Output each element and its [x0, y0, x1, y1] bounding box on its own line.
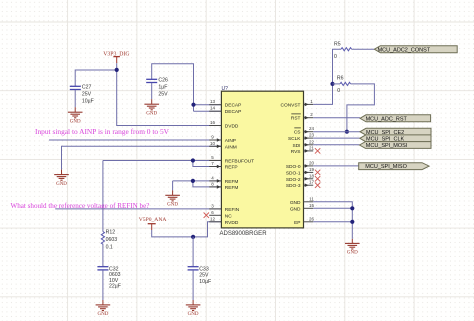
svg-text:R5: R5: [334, 41, 341, 47]
svg-text:REFM: REFM: [225, 179, 239, 185]
svg-text:19: 19: [309, 167, 315, 172]
svg-text:SDI: SDI: [293, 143, 301, 149]
port MCU_SPI_MOSI: [360, 142, 432, 150]
U? pin 8 REFM: [209, 181, 238, 191]
svg-text:C26: C26: [158, 78, 168, 84]
junction REFM node: [191, 179, 195, 183]
svg-text:REFBUFOUT: REFBUFOUT: [225, 159, 254, 165]
U? pin 6 NC: [204, 210, 233, 220]
capacitor C26: [146, 78, 168, 98]
svg-text:R12: R12: [106, 230, 116, 236]
ground GND (C33): [186, 305, 201, 317]
wire SCLK to port: [313, 137, 360, 139]
U? pin 17 SDO-3: [286, 180, 320, 190]
svg-text:GND: GND: [146, 111, 157, 116]
U? pin 3 REFIN: [209, 203, 240, 213]
svg-text:ADS8900BRGER: ADS8900BRGER: [220, 231, 268, 237]
U? pin 16 DVDD: [209, 120, 239, 130]
svg-text:10: 10: [210, 141, 216, 146]
svg-text:R6: R6: [337, 76, 344, 82]
svg-text:0: 0: [337, 88, 340, 94]
svg-text:24: 24: [309, 126, 315, 131]
op-amp U? ADS8900BRGER body: [220, 86, 304, 237]
svg-text:DECAP: DECAP: [225, 109, 242, 115]
U? pin 7 REFP: [209, 161, 237, 171]
resistor R5: [334, 41, 352, 60]
U? pin 23 SCLK: [288, 133, 315, 143]
U? pin 21 RVS: [291, 145, 321, 155]
wire V3P3_DIG stem to junction: [116, 63, 118, 70]
U? pin 18 SDO-2: [286, 173, 320, 183]
svg-text:11: 11: [309, 196, 314, 201]
svg-text:GND: GND: [290, 206, 301, 212]
svg-text:C27: C27: [82, 84, 92, 90]
wire SDO-0 to port: [313, 165, 359, 167]
svg-text:REFP: REFP: [225, 165, 238, 171]
wire AINP: [49, 139, 221, 141]
capacitor C27: [70, 84, 94, 104]
svg-text:RVS: RVS: [291, 149, 301, 155]
svg-text:0: 0: [334, 54, 337, 60]
U? pin 11 GND: [290, 196, 315, 206]
wire C26 top to DECAP pins: [152, 64, 194, 111]
svg-text:25V: 25V: [158, 91, 168, 97]
junction EP node: [350, 220, 354, 224]
resistor R6: [333, 76, 351, 94]
power port V5P0_ANA: [139, 217, 167, 230]
ground GND (C27): [68, 112, 83, 124]
wire REFM: [173, 180, 222, 182]
svg-text:22: 22: [309, 139, 315, 144]
wire REFIN: [55, 208, 221, 210]
svg-text:GND: GND: [347, 251, 358, 256]
wire DECAP pin13: [194, 104, 222, 106]
wire C27 to ground: [74, 90, 76, 107]
svg-text:V5P0_ANA: V5P0_ANA: [139, 217, 167, 223]
port MCU_SPI_CE2: [360, 128, 431, 136]
wire junction to C33: [192, 237, 194, 266]
wire REFBUFOUT: [103, 160, 221, 162]
resistor R12: [101, 230, 117, 251]
svg-text:21: 21: [309, 145, 315, 150]
wire C32 to ground: [102, 270, 104, 300]
junction DECAP node: [191, 103, 195, 107]
wire RST to port: [313, 117, 360, 119]
svg-text:SDO-2: SDO-2: [286, 177, 301, 183]
svg-text:MCU_ADC2_CONST: MCU_ADC2_CONST: [378, 47, 431, 53]
junction REFBUFOUT node: [191, 158, 195, 162]
wire EP: [313, 221, 352, 223]
capacitor C32: [97, 266, 121, 289]
junction C33 node: [191, 235, 195, 239]
svg-text:AINM: AINM: [225, 144, 237, 150]
U? pin 22 SDI: [293, 139, 315, 149]
svg-text:SDO-0: SDO-0: [286, 164, 301, 170]
U? pin 24 CS: [294, 126, 315, 136]
wire C33 to ground: [192, 270, 194, 300]
wire REFM pin8 branch: [193, 181, 222, 187]
svg-text:16: 16: [210, 120, 216, 125]
wire V3P3 down to DVDD pin 16: [117, 70, 222, 126]
svg-text:MCU_SPI_MISO: MCU_SPI_MISO: [365, 164, 407, 170]
U? pin 10 AINM: [209, 141, 237, 151]
wire CS to port: [313, 131, 360, 133]
svg-text:14: 14: [210, 106, 216, 111]
svg-text:DVDD: DVDD: [225, 124, 239, 130]
svg-text:17: 17: [309, 180, 315, 185]
U? pin 2 RST: [291, 112, 313, 122]
svg-text:10µF: 10µF: [199, 279, 211, 285]
wire C26 to ground: [151, 83, 153, 99]
svg-text:RST: RST: [291, 116, 301, 122]
svg-text:SDO-3: SDO-3: [286, 183, 301, 189]
U? pin 14 DECAP: [209, 106, 241, 116]
svg-text:23: 23: [309, 133, 315, 138]
U? pin 15 GND: [290, 203, 315, 213]
svg-text:GND: GND: [188, 312, 199, 317]
wire REFP branch: [193, 161, 222, 167]
U? pin 5 REFBUFOUT: [209, 155, 254, 165]
wire SDI to port: [313, 144, 359, 146]
svg-text:GND: GND: [167, 203, 178, 208]
port MCU_ADC_RST: [360, 115, 431, 123]
svg-text:DECAP: DECAP: [225, 103, 242, 109]
wire AINM: [62, 146, 222, 169]
svg-text:13: 13: [210, 99, 216, 104]
svg-text:MCU_ADC_RST: MCU_ADC_RST: [366, 116, 408, 122]
svg-text:22µF: 22µF: [109, 284, 121, 290]
svg-text:20: 20: [309, 160, 315, 165]
wire GND pins to ground: [313, 202, 352, 239]
svg-text:REFIN: REFIN: [225, 207, 240, 213]
svg-text:12: 12: [210, 216, 216, 221]
ground GND (C32): [96, 305, 111, 317]
ground GND (C26): [144, 104, 159, 116]
svg-text:SDO-1: SDO-1: [286, 170, 301, 176]
svg-text:GND: GND: [290, 200, 301, 206]
U? pin 26 EP: [294, 216, 314, 226]
svg-text:GND: GND: [97, 312, 108, 317]
wire V3P3 horizontal to C27: [75, 70, 117, 86]
svg-text:RVDD: RVDD: [225, 220, 239, 226]
svg-text:EP: EP: [294, 220, 300, 226]
svg-text:CS: CS: [294, 130, 301, 136]
svg-text:10µF: 10µF: [82, 98, 94, 104]
svg-text:1µF: 1µF: [158, 84, 167, 90]
port MCU_SPI_CLK: [360, 135, 431, 143]
port MCU_SPI_MISO: [359, 163, 429, 170]
U? pin 13 DECAP: [209, 99, 241, 109]
U? pin 1 CONVST: [281, 99, 314, 109]
svg-text:Input singal to AINP is in ran: Input singal to AINP is in range from 0 …: [35, 127, 170, 136]
svg-text:15: 15: [309, 203, 315, 208]
ground GND (REFM): [165, 195, 180, 207]
ground GND (EP): [345, 239, 360, 256]
svg-text:SCLK: SCLK: [288, 136, 301, 142]
wire R12 to C32: [102, 244, 104, 266]
svg-text:AINP: AINP: [225, 138, 236, 144]
wire V5P0_ANA to RVDD: [152, 222, 222, 237]
svg-text:NC: NC: [225, 213, 232, 219]
junction GND node: [350, 206, 354, 210]
svg-text:REFM: REFM: [225, 185, 239, 191]
junction CS node: [345, 130, 349, 134]
svg-text:0603: 0603: [106, 237, 118, 243]
svg-text:U?: U?: [222, 86, 229, 92]
wire R5 to port: [352, 48, 375, 50]
svg-text:CONVST: CONVST: [281, 102, 301, 108]
svg-text:25V: 25V: [199, 273, 209, 279]
wire DECAP pin14: [194, 110, 222, 112]
power port V3P3_DIG: [103, 51, 129, 63]
svg-text:0.1: 0.1: [106, 244, 113, 250]
wire REFM to ground: [172, 181, 174, 191]
svg-text:18: 18: [309, 173, 315, 178]
svg-text:25V: 25V: [82, 91, 92, 97]
junction R6 node: [330, 82, 334, 86]
U? pin 20 SDO-0: [286, 160, 315, 170]
svg-text:C33: C33: [199, 266, 209, 272]
junction V3P3 node: [115, 68, 119, 72]
svg-text:GND: GND: [56, 182, 67, 187]
U? pin 4 REFM: [209, 175, 238, 185]
svg-text:GND: GND: [70, 119, 81, 124]
svg-text:MCU_SPI_MOSI: MCU_SPI_MOSI: [366, 143, 408, 149]
svg-text:26: 26: [309, 216, 315, 221]
wire GND pin 15: [313, 207, 352, 209]
U? pin 12 RVDD: [209, 216, 239, 226]
ground GND (AINM): [54, 175, 69, 187]
wire R6 to CS net: [347, 84, 375, 132]
capacitor C33: [188, 266, 212, 284]
wire REFBUFOUT down to R12: [102, 161, 104, 232]
wire CONVST to R5/R6: [313, 49, 341, 104]
U? pin 9 AINP: [209, 135, 236, 145]
port MCU_ADC2_CONST: [374, 46, 457, 54]
U? pin 19 SDO-1: [286, 167, 320, 177]
